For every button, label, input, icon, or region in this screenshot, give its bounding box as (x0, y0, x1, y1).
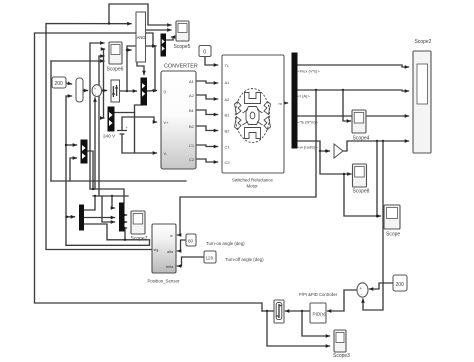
svg-text:120: 120 (206, 256, 214, 261)
wire 240V demux input (103, 117, 105, 119)
wire muxA out upper (84, 196, 96, 210)
svg-text:C2: C2 (189, 157, 195, 162)
wire sum out to relay (102, 90, 107, 92)
saturation block SAT1 (274, 300, 284, 323)
wire Scope6 input 2 (104, 49, 105, 118)
wire demux branch down to V- net (134, 113, 136, 153)
wire mux bar to converter g (147, 89, 157, 91)
svg-text:Switched Reluctance: Switched Reluctance (232, 178, 274, 183)
wire AND input 2 stub (126, 49, 131, 51)
wire 120 to position sensor beta (178, 257, 205, 266)
demux D1 (161, 34, 166, 56)
wire w branch to Scope8 (320, 151, 351, 174)
svg-text:+: + (360, 286, 363, 291)
mux MB (120, 203, 125, 231)
constant 60 (186, 234, 196, 246)
wire muxA middle out to muxB (84, 217, 115, 219)
svg-text:AND: AND (137, 35, 146, 40)
signal label I (298, 94, 311, 99)
logical operator AND U1 (136, 12, 146, 62)
svg-text:P/PI &PID Controller: P/PI &PID Controller (299, 292, 338, 297)
svg-text:A2: A2 (225, 97, 231, 102)
wire muxA out lower loop (66, 224, 150, 245)
svg-text:<I (A)>: <I (A)> (298, 94, 311, 99)
svg-text:Motor: Motor (247, 184, 259, 189)
wire I branch to Scope4 (343, 90, 351, 121)
wire teta to position sensor (178, 90, 317, 235)
converter block CONVERTER (161, 64, 198, 170)
wire converter A2 to motor A2 (196, 95, 218, 99)
wire 60 to position sensor alfa (178, 240, 187, 251)
wire mux input 2 from below (66, 96, 72, 217)
wire sum1 feedback from below (94, 98, 96, 189)
wire outer feedback loop left (35, 33, 263, 311)
wire I branch down to Scope (343, 173, 381, 217)
scope Scope3 (333, 330, 350, 359)
svg-text:Scope8: Scope8 (353, 189, 370, 195)
wire PID out to saturation (286, 310, 311, 312)
svg-text:A2: A2 (189, 93, 195, 98)
wire sig feedback left-up to AND input 1 (46, 24, 152, 250)
wire demux D2 out to mux bar bottom (113, 105, 141, 113)
constant 0 (199, 46, 211, 57)
wire w branch to Scope (376, 141, 378, 216)
svg-text:CONVERTER: CONVERTER (164, 64, 198, 70)
wire converter B2 to motor B2 (196, 126, 218, 131)
wire mux8 out (87, 151, 94, 190)
svg-text:PID(s): PID(s) (313, 312, 326, 317)
wire muxB out to Scope7 input2 (124, 221, 127, 223)
svg-text:g: g (164, 89, 166, 94)
wire constant 200 to mux (66, 83, 72, 84)
wire Scope6 input 3 (99, 56, 104, 196)
svg-text:200: 200 (396, 282, 405, 288)
wire Scope6 input 1 (90, 43, 104, 189)
wire sum2 out to PID (328, 290, 358, 311)
motor block Switched Reluctance Motor (222, 55, 284, 189)
wire mux out to sum (83, 90, 88, 92)
svg-text:<Te (N*m)>: <Te (N*m)> (298, 120, 319, 125)
wire w signal to gain (297, 141, 330, 152)
svg-text:alfa: alfa (167, 250, 174, 254)
wire Flux signal to Scope2 port1 (297, 65, 409, 67)
wire saturation out left (262, 310, 274, 312)
wire cluster stub to muxB 1 (112, 196, 115, 208)
svg-text:C2: C2 (225, 160, 231, 165)
bus selector B1 (292, 53, 297, 148)
wire jog to Scope5 input 1 (109, 4, 171, 25)
wire mux8 input 2 (70, 158, 77, 181)
position sensor block (148, 224, 181, 284)
wire mux8 input 1 (65, 144, 77, 146)
svg-text:200: 200 (55, 81, 64, 87)
controller label (299, 292, 338, 297)
svg-text:<Flux (V*s)>: <Flux (V*s)> (298, 69, 321, 74)
wire saturation branch to Scope3 input2 (267, 311, 330, 346)
svg-text:V+: V+ (164, 120, 170, 125)
svg-text:Scope: Scope (386, 232, 400, 238)
wire lower loop line (51, 180, 186, 182)
svg-text:A1: A1 (225, 80, 231, 85)
wire relay out to mux bar (120, 90, 137, 92)
wire w feedback to sum2 (363, 141, 383, 310)
wire I signal to Scope2 port2 (297, 89, 409, 91)
scope Scope2 (413, 39, 432, 153)
svg-text:B1: B1 (189, 108, 195, 113)
svg-text:+: + (126, 125, 129, 130)
wire converter C2 to motor C2 (196, 159, 218, 162)
svg-text:Scope7: Scope7 (131, 236, 148, 242)
svg-text:sig: sig (154, 248, 159, 252)
PID controller block (310, 303, 326, 323)
sum S1 (92, 85, 102, 97)
signal label w (298, 145, 319, 150)
svg-text:240 V: 240 V (103, 134, 116, 139)
gain G1 (334, 144, 343, 158)
mux bar M2 (141, 78, 147, 105)
svg-text:beta: beta (166, 265, 174, 269)
wire muxA input (66, 216, 75, 246)
annotation Turn-on angle (206, 241, 245, 246)
svg-text:A1: A1 (189, 79, 195, 84)
svg-text:60: 60 (188, 239, 194, 244)
svg-text:TL: TL (225, 63, 230, 68)
wire demux to Scope5 input 3 (166, 37, 174, 40)
wire converter A1 to motor A1 (196, 81, 218, 83)
demux D2 (240V branch) (108, 107, 114, 131)
scope Scope5 (174, 21, 191, 50)
svg-text:Position_Sensor: Position_Sensor (148, 279, 181, 284)
wire gain out to Scope2 port4 (343, 140, 409, 151)
wire cluster stub to muxB 2 (102, 196, 115, 222)
wire cluster box (90, 189, 124, 203)
svg-text:Scope4: Scope4 (353, 135, 370, 141)
svg-text:C1: C1 (189, 143, 195, 148)
svg-text:Scope2: Scope2 (415, 39, 432, 45)
scope Scope8 (353, 164, 370, 195)
wire vertical gate branch (154, 46, 156, 91)
relay (hysteresis) HB1 (111, 80, 120, 102)
svg-text:V-: V- (164, 151, 168, 156)
mux M8 (81, 140, 87, 163)
wire vertical branch to AND input 2 (127, 45, 156, 91)
svg-text:Scope6: Scope6 (107, 67, 124, 73)
annotation Turn-off angle (225, 257, 264, 262)
wire cluster horizontal (93, 195, 128, 197)
svg-text:Turn-off angle (deg): Turn-off angle (deg) (225, 257, 264, 262)
svg-text:C1: C1 (225, 145, 231, 150)
scope Scope (384, 205, 400, 238)
mux M1 (76, 78, 83, 102)
constant 200 (52, 77, 66, 88)
wire Scope6 input 4 (51, 61, 104, 181)
signal label Te (298, 120, 319, 125)
wire PID branch to Scope3 input1 (302, 311, 330, 336)
junction at loop2 (108, 22, 110, 24)
constant 200 reference (393, 275, 407, 291)
scope Scope4 (352, 110, 370, 141)
scope Scope7 (131, 211, 148, 242)
wire AND out to Scope5 input 2 (146, 29, 172, 31)
svg-text:<w (rad/s)>: <w (rad/s)> (298, 145, 319, 150)
svg-text:w: w (170, 234, 173, 238)
svg-text:Turn-on angle (deg): Turn-on angle (deg) (206, 241, 245, 246)
wire AND bottom hook to mux bar top (137, 62, 144, 75)
wire converter B1 to motor B1 (196, 110, 218, 115)
wire constant 0 to TL (205, 57, 218, 66)
wire constant 200b to sum2 (370, 283, 394, 289)
svg-text:B2: B2 (189, 124, 195, 129)
sum S2 (357, 283, 368, 297)
svg-text:Scope3: Scope3 (333, 353, 350, 359)
mux MA (80, 205, 84, 230)
motor rotor icon (235, 89, 271, 143)
svg-text:Scope5: Scope5 (174, 44, 191, 50)
dc voltage source 240 V (103, 125, 129, 143)
wire branch to Scope7 input3 (124, 228, 127, 241)
wire 240V source plus to V+ (122, 117, 157, 127)
signal label Flux (298, 69, 321, 74)
wire Te signal to Scope2 port3 (297, 115, 409, 117)
svg-text:0: 0 (203, 50, 206, 56)
wire converter C1 to motor C1 (196, 145, 218, 147)
svg-text:B2: B2 (225, 129, 231, 134)
constant 120 (204, 251, 216, 263)
scope Scope6 (107, 42, 124, 73)
svg-text:B1: B1 (225, 113, 231, 118)
wire muxB out to Scope7 input1 (124, 214, 127, 216)
wire motor m to bus selector (284, 102, 288, 104)
wire 240V source minus to V- (122, 143, 157, 153)
